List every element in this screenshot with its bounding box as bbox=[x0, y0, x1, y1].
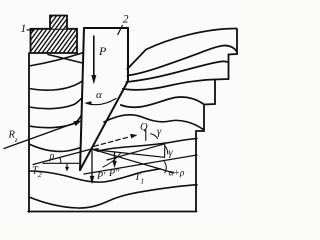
chip curve c6 bbox=[104, 115, 204, 130]
chip staircase right edge bbox=[196, 29, 237, 131]
force arrow P bbox=[93, 36, 95, 78]
force arrow P double prime bbox=[114, 152, 116, 163]
wire right edge of workpiece bbox=[195, 131, 197, 212]
leader for label 2 bbox=[118, 26, 123, 35]
svg-text:α: α bbox=[96, 89, 102, 101]
node Rz roughness line bbox=[4, 122, 79, 149]
shear line F2 bbox=[84, 155, 197, 174]
leader for label 1 bbox=[27, 29, 34, 32]
svg-text:1: 1 bbox=[21, 23, 27, 35]
wire machined surface wavy bbox=[98, 139, 197, 152]
wire layer line l2 bbox=[29, 80, 84, 90]
wire rho horizontal reference bbox=[43, 162, 79, 164]
wire tool top edge bbox=[84, 27, 128, 29]
chip curve c2 bbox=[128, 46, 238, 76]
wire layer line l5 bbox=[29, 144, 81, 151]
wire layer line l1 bbox=[29, 53, 84, 67]
wire layer line l4 bbox=[29, 114, 82, 128]
svg-text:2: 2 bbox=[123, 14, 129, 26]
force arrow Q dashed bbox=[94, 137, 130, 147]
wire lower wavy line 2 bbox=[29, 185, 197, 208]
node T2 shear line bbox=[33, 149, 92, 165]
angle arc near vertex bbox=[103, 153, 121, 168]
block 1 hatched bbox=[14, 13, 101, 57]
chip curve c5 bbox=[121, 97, 204, 107]
angle arc alpha+rho bbox=[164, 162, 166, 173]
angle arc rho bbox=[60, 158, 61, 163]
tick arrow below rho line bbox=[66, 163, 68, 169]
wire uncut surface line under block bbox=[48, 55, 83, 64]
angle arc gamma2 bbox=[165, 146, 168, 154]
wire lower wavy line 1 bbox=[29, 169, 160, 182]
svg-text:P′: P′ bbox=[96, 171, 106, 182]
wire tool left edge bbox=[80, 28, 84, 170]
tick gamma2 bbox=[164, 144, 166, 158]
wire line A2 rising bbox=[107, 144, 165, 160]
svg-text:α+ρ: α+ρ bbox=[169, 169, 185, 179]
force arrow P prime bbox=[91, 151, 93, 179]
wire layer line l3 bbox=[29, 96, 83, 109]
angle arc gamma1 bbox=[151, 134, 158, 139]
wire bottom edge of workpiece bbox=[28, 211, 196, 213]
svg-text:P″: P″ bbox=[108, 168, 120, 179]
wire tool rake face bbox=[80, 81, 128, 170]
wire line B from vertex bbox=[93, 150, 165, 158]
svg-text:ρ: ρ bbox=[49, 151, 55, 162]
shear line F1 to alpha+rho bbox=[92, 149, 175, 173]
chip curve c1 bbox=[127, 29, 236, 70]
svg-text:P: P bbox=[98, 44, 107, 58]
angle arc alpha bbox=[87, 99, 116, 105]
svg-text:Q: Q bbox=[140, 122, 148, 133]
wire tool right edge bbox=[127, 28, 129, 81]
wire left edge of workpiece bbox=[28, 53, 30, 212]
tool body (white fill) U-tool bbox=[80, 28, 128, 170]
chip curve c3 bbox=[127, 61, 229, 82]
chip curve c4 bbox=[123, 80, 215, 90]
tick below Q bbox=[145, 130, 147, 141]
